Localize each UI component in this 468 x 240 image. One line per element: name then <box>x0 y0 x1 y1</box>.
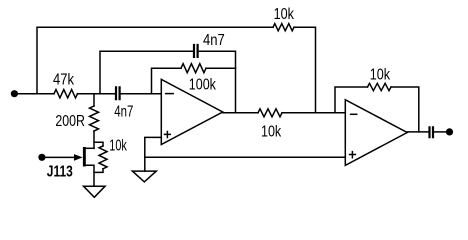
svg-text:47k: 47k <box>53 72 75 89</box>
svg-text:4n7: 4n7 <box>114 104 133 121</box>
svg-text:200R: 200R <box>55 113 85 130</box>
svg-text:10k: 10k <box>109 138 127 155</box>
svg-text:10k: 10k <box>274 6 295 23</box>
svg-text:10k: 10k <box>261 124 282 141</box>
svg-text:10k: 10k <box>370 67 391 84</box>
svg-text:J113: J113 <box>47 164 73 181</box>
svg-text:4n7: 4n7 <box>203 32 225 49</box>
svg-text:100k: 100k <box>189 77 217 94</box>
